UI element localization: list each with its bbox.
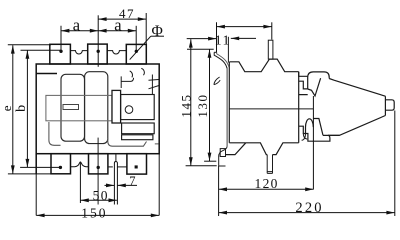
body outline <box>36 64 159 154</box>
svg-text:a: a <box>73 15 81 34</box>
J line under arc <box>121 76 133 88</box>
150 right extension <box>158 154 160 216</box>
dim a right <box>98 30 136 32</box>
left face outer line <box>226 68 228 147</box>
lower hook dome <box>306 119 314 134</box>
terminal box T3 <box>126 44 146 64</box>
dim a left <box>61 30 98 32</box>
dim 145 <box>190 39 192 165</box>
top unnamed dim <box>217 26 272 28</box>
T1 centre line up <box>60 26 62 52</box>
lower flange crescent upper <box>214 77 220 85</box>
mechanism box U1 <box>121 95 155 120</box>
recessed line slot to B3 <box>117 166 127 168</box>
inner bottom contour right <box>108 138 159 146</box>
top dim right extension <box>271 22 273 39</box>
strip left edge <box>35 154 37 174</box>
svg-text:130: 130 <box>195 93 210 117</box>
lower flange crescent lower <box>214 80 220 85</box>
dim 47 <box>98 18 146 20</box>
bottom profile with pin recess <box>246 143 299 155</box>
145 bottom extension <box>186 165 217 167</box>
svg-text:150: 150 <box>81 205 107 220</box>
trapezoid top edge <box>329 79 385 97</box>
svg-text:7: 7 <box>129 174 135 188</box>
dim 120 <box>219 188 314 190</box>
svg-text:47: 47 <box>119 6 135 21</box>
plateau step edge <box>299 72 308 77</box>
50 left extension (notch line down) <box>79 162 81 203</box>
bottom box B3 <box>127 154 147 174</box>
svg-text:50: 50 <box>93 188 109 203</box>
right face step upper <box>299 81 308 94</box>
extension / centre lines, front view <box>8 13 159 215</box>
220 right extension <box>394 111 396 217</box>
narrow slot (7mm) <box>114 162 117 205</box>
T2 centre line up <box>97 15 99 67</box>
top flange band inner <box>217 52 229 67</box>
handle slot arc 1 <box>130 71 133 78</box>
mid horizontal line <box>229 108 313 110</box>
interior stub line top-left <box>36 73 57 75</box>
phi underline <box>151 35 164 37</box>
terminal box T1 <box>50 44 71 64</box>
stacked rectangle B <box>122 135 153 140</box>
slot in crossbar <box>63 105 79 110</box>
mounting tab line <box>227 37 229 63</box>
svg-text:b: b <box>14 105 29 112</box>
inner bottom contour left <box>49 122 61 145</box>
arc-chute strip 2 <box>85 72 108 144</box>
foot underside and pedestal rise <box>226 143 246 155</box>
150 left extension <box>35 154 37 216</box>
wide crossbar rectangle <box>46 95 112 120</box>
top flange band outer <box>214 52 227 68</box>
lever tick 1 <box>149 79 159 82</box>
120 right extension <box>312 96 314 189</box>
145 top extension + 11 left arrow <box>187 38 217 40</box>
top surface profile with bumps <box>229 59 298 72</box>
top edge with dip between T1 and T2 <box>70 51 87 54</box>
top edge with dip between T2 and T3 <box>107 51 126 54</box>
upper handle grip <box>308 72 330 89</box>
dim 7 left arrow <box>105 184 115 186</box>
47 right extension <box>145 13 147 44</box>
dimension texts, side view <box>178 33 323 215</box>
dim e <box>12 45 14 174</box>
120 left extension <box>218 166 220 193</box>
foot tab <box>220 149 225 157</box>
dot B1 <box>59 166 62 169</box>
svg-text:Φ: Φ <box>152 23 163 40</box>
e top extension <box>8 44 51 46</box>
dim 150 <box>36 214 159 216</box>
hanging pin <box>267 155 272 174</box>
dot B3 (square) <box>135 165 138 168</box>
knob <box>385 100 394 110</box>
lower handle flat and diagonal <box>313 119 339 136</box>
dimension texts, front view <box>0 6 163 221</box>
dot T1 <box>59 50 62 53</box>
left face inner line <box>228 62 230 143</box>
bottom box B1 <box>51 154 71 174</box>
220 left extension <box>218 194 220 217</box>
phi leader line <box>130 36 151 59</box>
inner bottom line <box>229 142 246 144</box>
svg-text:e: e <box>0 105 14 111</box>
right vertical track line <box>151 75 153 95</box>
dim 220 <box>219 212 395 214</box>
e bottom extension <box>8 173 51 175</box>
notch profile between B1 and B2 <box>71 162 89 167</box>
b top extension <box>21 49 62 51</box>
upper handle tip <box>308 78 321 96</box>
dot B2 <box>97 166 100 169</box>
slot centre tick <box>115 154 117 161</box>
terminal box T2 <box>88 44 108 64</box>
foot hook <box>219 146 227 166</box>
130 bottom extension <box>204 160 216 162</box>
T3 centre line up <box>135 26 137 52</box>
11 left extension <box>216 22 218 52</box>
corner arcs under dome <box>302 134 308 141</box>
dim b <box>26 50 28 167</box>
top flange cap <box>214 51 217 53</box>
11 right arrow <box>231 37 256 39</box>
dot T2 <box>97 50 100 53</box>
lever tick 2 <box>149 86 159 89</box>
handle slider rectangle <box>112 90 121 123</box>
extension lines, side view <box>186 22 395 216</box>
mechanism circle <box>125 106 133 114</box>
dim 7 right arrow <box>117 184 137 186</box>
dim 50 <box>80 199 117 201</box>
dim 130 <box>209 49 211 161</box>
centre pole line <box>97 138 99 205</box>
stacked rectangle A <box>122 123 155 134</box>
trapezoid right face <box>384 96 386 115</box>
svg-text:120: 120 <box>255 176 279 191</box>
dots <box>59 50 138 169</box>
bottom box B2 <box>89 154 108 174</box>
recessed line B2 to slot <box>108 166 113 168</box>
svg-text:145: 145 <box>178 93 193 117</box>
handle slot arc 2 <box>141 68 144 75</box>
dimension lines, front view <box>13 19 164 215</box>
right face <box>298 72 300 143</box>
right face step lower <box>299 126 330 141</box>
svg-text:220: 220 <box>295 200 323 216</box>
dot T3 <box>135 50 138 53</box>
dimension lines, side view <box>191 27 395 213</box>
trapezoid bottom edge <box>328 116 385 136</box>
130 top extension <box>187 48 214 50</box>
terminal lug on bump <box>268 40 273 59</box>
svg-text:11: 11 <box>215 33 231 48</box>
bottom terminal strip <box>36 154 146 205</box>
arc-chute strip 1 <box>61 74 85 141</box>
b bottom extension <box>20 166 60 168</box>
